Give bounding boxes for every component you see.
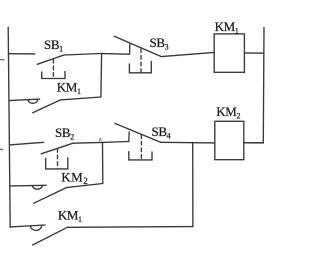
wire SB3 to coil KM1 xyxy=(161,52,214,56)
contact KM1 aux hinge arc xyxy=(28,99,38,103)
wire row5 to node C xyxy=(67,226,192,229)
wire row2 left stub xyxy=(9,99,40,101)
contact SB3 fixed tick xyxy=(129,44,131,54)
pushbutton SB4 operator link (dashed) xyxy=(140,135,142,160)
page edge mark upper xyxy=(0,59,4,61)
wire row2 to junction A xyxy=(60,97,101,100)
page edge mark lower xyxy=(0,148,3,150)
pushbutton SB2 operator link (dashed) xyxy=(57,149,59,169)
contact KM2 aux blade xyxy=(34,188,67,204)
coil KM2 rectangle xyxy=(215,121,244,159)
wire row1 left stub xyxy=(8,53,34,55)
pushbutton SB2 cap xyxy=(46,158,68,169)
pushbutton SB3 blade (NC) xyxy=(114,36,161,56)
left rail xyxy=(8,27,10,227)
contact KM1 seq hinge arc xyxy=(30,225,41,230)
wire SB4 to coil KM2 xyxy=(161,141,215,144)
scan speck near node B xyxy=(99,138,101,141)
contact KM1 seq blade xyxy=(33,227,68,245)
contact KM1 aux blade xyxy=(33,100,61,113)
wire row4 to junction B xyxy=(66,184,102,188)
wire coil KM2 to right rail xyxy=(244,142,263,144)
pushbutton SB3 operator link (dashed) xyxy=(140,49,142,73)
pushbutton SB2 blade xyxy=(41,143,73,154)
pushbutton SB1 cap xyxy=(42,72,65,79)
wire row1 junction A to SB3 xyxy=(102,53,130,56)
wire coil KM1 to right rail xyxy=(244,52,264,54)
right rail xyxy=(244,28,264,143)
node C vertical (row5 up to KM2 wire) xyxy=(192,142,194,226)
pushbutton SB1 blade xyxy=(37,55,64,64)
node A vertical (row1 to row2) xyxy=(100,53,103,97)
coil KM1 rectangle xyxy=(214,34,244,72)
wire row3 left stub xyxy=(10,142,44,145)
wire row4 left stub xyxy=(10,184,46,187)
wire row1 SB1 to junction A xyxy=(64,54,102,56)
wire row3 junction B to SB4 xyxy=(103,141,129,144)
pushbutton SB4 blade (NC) xyxy=(115,123,161,142)
node B vertical (row3 to row4) xyxy=(102,142,104,183)
wire row3 SB2 to junction B xyxy=(73,141,103,144)
pushbutton SB1 operator link (dashed) xyxy=(52,60,54,79)
wire row5 left stub xyxy=(10,225,45,227)
contact SB4 fixed tick xyxy=(128,132,130,141)
contact KM2 aux hinge arc xyxy=(32,185,42,189)
pushbutton SB3 cap xyxy=(129,61,151,72)
pushbutton SB4 cap xyxy=(129,152,152,160)
